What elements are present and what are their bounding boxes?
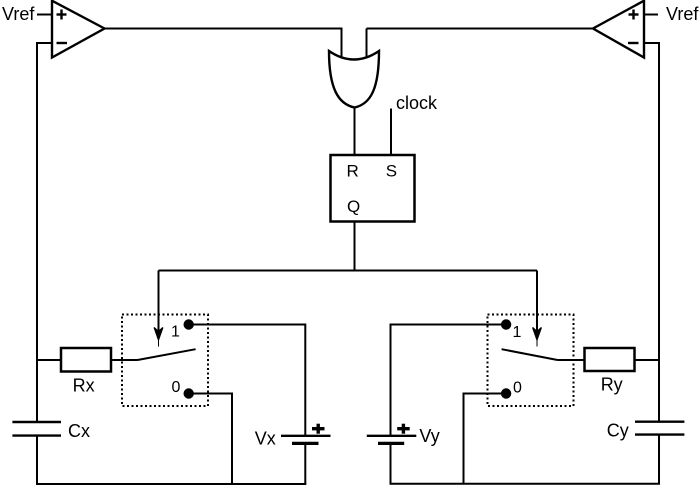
svg-text:Vy: Vy (419, 426, 439, 446)
svg-text:R: R (347, 161, 359, 180)
svg-text:Q: Q (347, 197, 360, 216)
svg-text:Ry: Ry (601, 375, 623, 395)
svg-text:1: 1 (513, 324, 522, 341)
svg-text:Cx: Cx (68, 421, 90, 441)
svg-text:Vx: Vx (255, 428, 276, 448)
svg-text:Rx: Rx (73, 375, 95, 395)
svg-text:Vref: Vref (666, 4, 699, 24)
svg-text:clock: clock (396, 93, 438, 113)
svg-text:Cy: Cy (607, 420, 629, 440)
svg-text:0: 0 (513, 380, 522, 397)
svg-text:S: S (386, 161, 397, 180)
svg-text:0: 0 (172, 379, 181, 396)
svg-text:Vref: Vref (2, 4, 35, 24)
svg-text:1: 1 (171, 323, 180, 340)
